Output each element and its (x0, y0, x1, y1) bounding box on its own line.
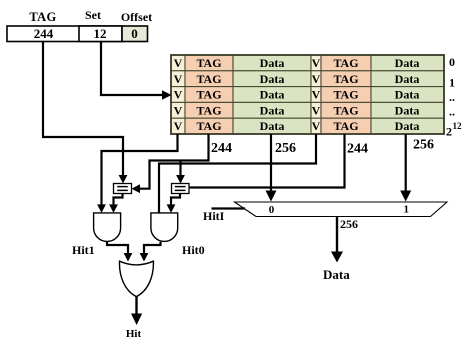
OR gate G3 (119, 261, 153, 296)
svg-text:244: 244 (211, 141, 232, 156)
svg-text:0: 0 (269, 204, 275, 216)
svg-text:0: 0 (449, 55, 455, 69)
wire: comparator2 output to AND2 right input (171, 194, 180, 207)
address register Set cell, value 12 (79, 26, 122, 42)
arrowhead Data out (331, 252, 343, 263)
svg-text:Data: Data (395, 56, 420, 70)
arrowhead AND1 left (97, 204, 106, 213)
arrowhead AND1 right (109, 204, 118, 213)
comparator U1 (114, 184, 132, 194)
svg-text:Set: Set (85, 8, 101, 22)
row index label 2^12 (446, 121, 462, 139)
arrowhead Hit (131, 314, 142, 326)
svg-text:0: 0 (131, 26, 138, 41)
arrowhead OR left (124, 253, 133, 262)
svg-text:244: 244 (34, 26, 54, 41)
svg-text:Data: Data (260, 56, 285, 70)
wire: Data2 to mux input 1 (405, 134, 407, 192)
svg-text:TAG: TAG (196, 56, 221, 70)
arrowhead mux 0 (266, 191, 277, 202)
svg-text:12: 12 (94, 26, 107, 41)
arrowhead comparator2 top (176, 175, 185, 184)
multiplexer M1 (235, 202, 448, 217)
svg-text:..: .. (449, 90, 455, 104)
wire: Set index into table (101, 42, 164, 96)
svg-text:V: V (312, 56, 321, 70)
wire: stem to comparator2 top (179, 161, 181, 178)
wire: Data1 to mux input 0 (270, 134, 272, 192)
svg-text:..: .. (449, 105, 455, 119)
arrowhead mux 1 (400, 191, 411, 202)
arrowhead AND2 right (167, 204, 176, 213)
wire: V1 to AND1 left input (102, 134, 178, 206)
arrowhead into comparator1 top (119, 175, 128, 184)
svg-text:Data: Data (323, 267, 350, 282)
svg-text:256: 256 (413, 138, 434, 153)
svg-text:256: 256 (275, 141, 296, 156)
svg-text:Offset: Offset (121, 10, 152, 24)
wire: OR output to Hit (135, 296, 137, 315)
address register TAG cell, value 244 (7, 26, 122, 42)
address register Offset cell, value 0 (122, 26, 148, 42)
svg-text:1: 1 (449, 76, 455, 90)
svg-text:256: 256 (340, 217, 358, 231)
svg-text:V: V (174, 56, 183, 70)
svg-text:HitI: HitI (203, 209, 225, 223)
wire: TAG2 to comparator2 right input (189, 134, 345, 188)
wire: V2 to AND2 left input (159, 134, 316, 213)
svg-text:1: 1 (404, 204, 410, 216)
svg-text:12: 12 (453, 121, 463, 131)
wire: mux output (336, 217, 338, 253)
wire: address TAG to comparator1 (43, 42, 123, 178)
cache memory table (2 ways: V|TAG|Data, 5 rows) (171, 55, 444, 134)
svg-text:244: 244 (347, 142, 368, 157)
arrowhead comparator1 right (132, 184, 141, 193)
AND gate G1 (94, 213, 121, 242)
arrowhead OR right (140, 253, 149, 262)
AND gate G2 (151, 213, 178, 242)
svg-text:TAG: TAG (29, 10, 56, 24)
wire: AND2 output to OR right input (144, 242, 161, 255)
svg-text:Hit0: Hit0 (182, 243, 205, 257)
svg-text:2: 2 (446, 125, 452, 139)
wire: AND1 output to OR left input (107, 242, 128, 256)
svg-text:Hit1: Hit1 (72, 243, 95, 257)
arrowhead into table left (162, 90, 172, 99)
wire: HitI select into mux (212, 207, 246, 209)
wire: comparator1 output to AND1 right input (114, 194, 123, 207)
comparator U2 (172, 184, 190, 194)
svg-text:TAG: TAG (333, 56, 358, 70)
svg-text:Hit: Hit (126, 328, 142, 340)
wire: TAG1 to comparator1 right input (138, 134, 209, 189)
